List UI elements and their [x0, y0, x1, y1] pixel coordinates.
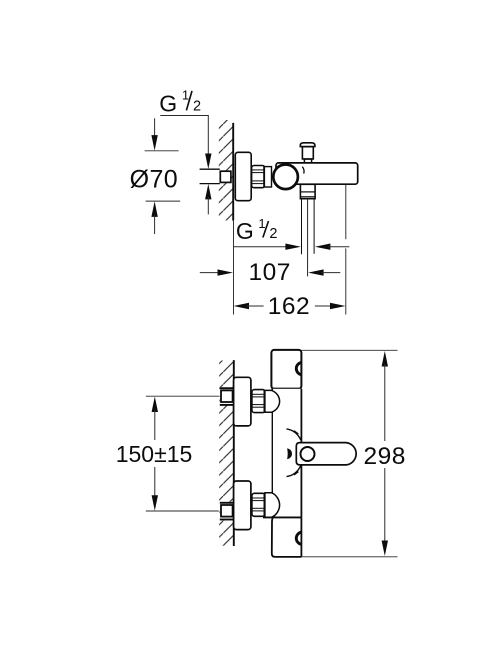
wall face line (side view) [232, 123, 234, 221]
spout body bar (side view) [276, 163, 358, 184]
shower outlet tube centerline / 107 extension [307, 199, 309, 276]
dim 107 left arrow [200, 272, 220, 274]
upper union nut (front view) [252, 390, 265, 413]
handle bottom separator line [271, 388, 301, 390]
Ø70 extension line bottom [146, 200, 181, 202]
bottom block right edge [300, 517, 302, 557]
lower S-union fitting (front view) [220, 502, 234, 520]
mid column (front view) [272, 389, 301, 518]
union nut (side view) [252, 166, 265, 188]
svg-text:1: 1 [182, 88, 189, 103]
bottom block top line [263, 516, 301, 518]
aerator circle in spout [301, 447, 315, 461]
svg-text:Ø70: Ø70 [130, 166, 178, 194]
Ø70 lower arrow line [151, 201, 157, 217]
svg-text:2: 2 [269, 226, 277, 242]
lower union nut (front view) [252, 493, 265, 516]
Ø70 extension line top [145, 150, 179, 152]
dim 162 line with outward arrows [234, 303, 250, 309]
Ø70 upper arrow line [154, 118, 156, 137]
body detail arc right of knob [302, 167, 304, 174]
spout lower fillet arc [287, 466, 301, 477]
wall (side view) hatched strip [219, 120, 233, 220]
svg-text:298: 298 [364, 443, 406, 470]
bottom block (front view) [272, 517, 302, 557]
wall face line (front view) [233, 360, 235, 546]
dim 107 right arrow [308, 269, 324, 275]
thermostat handle block (front view) [271, 350, 301, 389]
body end extension line down to 162 [345, 185, 347, 240]
spout upper tick [294, 431, 298, 434]
bottom block notch half-circle [296, 532, 301, 544]
298 dim line with arrows [382, 351, 388, 367]
spacer between nut and knob (side view) [264, 167, 271, 187]
150±15 extension line upper [146, 395, 220, 397]
crescent mark left of aerator [287, 448, 292, 459]
svg-text:G: G [159, 91, 177, 117]
spout loop (stadium shape) [296, 443, 356, 465]
escutcheon (side view) [235, 152, 251, 200]
leader line under G1/2 top [160, 116, 208, 154]
150±15 extension line lower [146, 510, 219, 512]
upper S-union fitting (front view) [220, 387, 234, 405]
arrow down to pipe top [205, 154, 211, 170]
wall face extension line down to 162 [233, 221, 235, 315]
upper escutcheon (front view) [234, 377, 251, 426]
lower escutcheon (front view) [234, 481, 251, 530]
spout lower tick [294, 471, 298, 474]
svg-text:162: 162 [268, 293, 310, 320]
298 extension line lower [302, 556, 398, 558]
handle notch half-circle [296, 362, 301, 374]
G1/2 lower dim line left + arrow [234, 246, 288, 248]
wall (front view) hatched strip [219, 361, 233, 547]
svg-text:2: 2 [193, 98, 201, 114]
upper inlet boss (front view) [265, 390, 280, 412]
298 extension line upper [302, 349, 398, 351]
svg-text:G: G [236, 218, 254, 244]
G1/2 lower dim right arrow + tail [315, 244, 331, 250]
svg-text:1: 1 [258, 216, 265, 231]
pipe end square fitting (side view) [220, 171, 231, 182]
shower outlet tube walls (side view) [301, 199, 303, 254]
diverter knob cap (side view) [300, 143, 315, 147]
svg-text:107: 107 [249, 259, 291, 286]
arrow up to pipe bottom with tail [205, 184, 211, 200]
svg-text:150±15: 150±15 [116, 441, 193, 467]
150±15 dim line with arrows [152, 397, 158, 413]
lower inlet boss (front view) [265, 493, 280, 517]
supply pipe through wall (side view) [200, 169, 220, 183]
shower outlet collar (side view) [300, 184, 315, 198]
diverter knob base (side view) [304, 159, 311, 162]
spout upper fillet arc [287, 429, 301, 440]
diverter knob neck (side view) [302, 147, 313, 159]
control knob circle (side view) [273, 165, 298, 190]
